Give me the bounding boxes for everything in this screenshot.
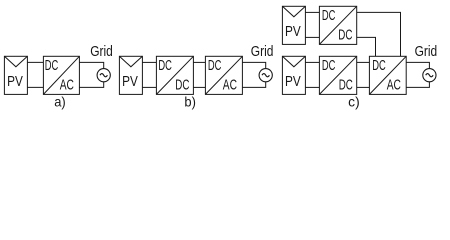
- svg-text:b): b): [184, 95, 196, 110]
- svg-text:AC: AC: [387, 77, 401, 93]
- wire U-c2 to U-c3 bottom: [357, 86, 370, 88]
- wire U-c3 to grid top: [406, 62, 429, 68]
- AC source G-a: [97, 69, 110, 82]
- wire PV-c2 to U-c2 bottom: [305, 86, 319, 88]
- svg-text:DC: DC: [339, 77, 353, 93]
- wire U-c1 output bottom to DC bus: [357, 37, 376, 56]
- wire PV-a to U-a bottom: [27, 86, 43, 88]
- G-c sine symbol: [426, 74, 433, 77]
- svg-text:DC: DC: [322, 8, 336, 24]
- svg-text:a): a): [54, 95, 65, 110]
- svg-text:c): c): [348, 95, 360, 110]
- PV panel PV-c1 (top string): [282, 6, 305, 44]
- PV-c2 symbol chevron: [282, 56, 305, 67]
- wire U-c2 to U-c3 top: [357, 61, 370, 63]
- svg-text:PV: PV: [285, 74, 301, 90]
- svg-text:PV: PV: [7, 74, 23, 90]
- U-c2 diagonal: [319, 56, 356, 94]
- svg-text:DC: DC: [372, 58, 386, 74]
- U-a diagonal: [43, 56, 79, 94]
- wire U-b1 to U-b2 bottom: [193, 86, 205, 88]
- svg-text:DC: DC: [158, 58, 172, 74]
- PV-b symbol chevron: [119, 56, 142, 67]
- svg-text:Grid: Grid: [90, 44, 113, 60]
- wire PV-b to U-b1 top: [142, 61, 156, 63]
- PV panel PV-a: [4, 56, 27, 94]
- wire PV-c2 to U-c2 top: [305, 61, 319, 63]
- PV panel PV-c2 (bottom string): [282, 56, 305, 94]
- svg-text:AC: AC: [60, 77, 74, 93]
- U-c1 diagonal: [319, 6, 356, 44]
- AC source G-c: [423, 69, 436, 82]
- wire U-a to grid top: [79, 62, 103, 68]
- wire U-b2 to grid bottom: [242, 82, 265, 88]
- wire U-c3 to grid bottom: [406, 82, 429, 88]
- G-a sine symbol: [100, 74, 107, 77]
- U-b1 diagonal: [156, 56, 193, 94]
- wire U-b1 to U-b2 top: [193, 61, 205, 63]
- U-c3 diagonal: [369, 56, 406, 94]
- svg-text:AC: AC: [223, 77, 237, 93]
- svg-text:DC: DC: [45, 58, 59, 74]
- svg-text:Grid: Grid: [415, 44, 438, 60]
- wire U-b2 to grid top: [242, 62, 265, 68]
- wire PV-a to U-a top: [27, 61, 43, 63]
- inverter U-a DC/AC: [43, 56, 79, 94]
- G-b sine symbol: [262, 74, 269, 77]
- PV-a symbol chevron: [4, 56, 27, 67]
- svg-text:DC: DC: [208, 58, 222, 74]
- converter U-c2 DC/DC (bottom string): [319, 56, 356, 94]
- svg-text:PV: PV: [285, 24, 301, 40]
- svg-text:Grid: Grid: [251, 44, 274, 60]
- wire PV-c1 to U-c1 bottom: [305, 36, 319, 38]
- svg-text:DC: DC: [175, 77, 189, 93]
- converter U-b1 DC/DC: [156, 56, 193, 94]
- U-b2 diagonal: [205, 56, 242, 94]
- inverter U-c3 DC/AC: [369, 56, 406, 94]
- wire PV-b to U-b1 bottom: [142, 86, 156, 88]
- svg-text:PV: PV: [122, 74, 138, 90]
- wire PV-c1 to U-c1 top: [305, 11, 319, 13]
- PV-c1 symbol chevron: [282, 6, 305, 16]
- PV panel PV-b: [119, 56, 142, 94]
- converter U-c1 DC/DC (top string): [319, 6, 356, 44]
- inverter U-b2 DC/AC: [205, 56, 242, 94]
- svg-text:DC: DC: [338, 27, 352, 43]
- wire U-a to grid bottom: [79, 82, 103, 88]
- AC source G-b: [259, 69, 272, 82]
- svg-text:DC: DC: [322, 58, 336, 74]
- wire U-c1 output top to DC bus: [357, 12, 401, 56]
